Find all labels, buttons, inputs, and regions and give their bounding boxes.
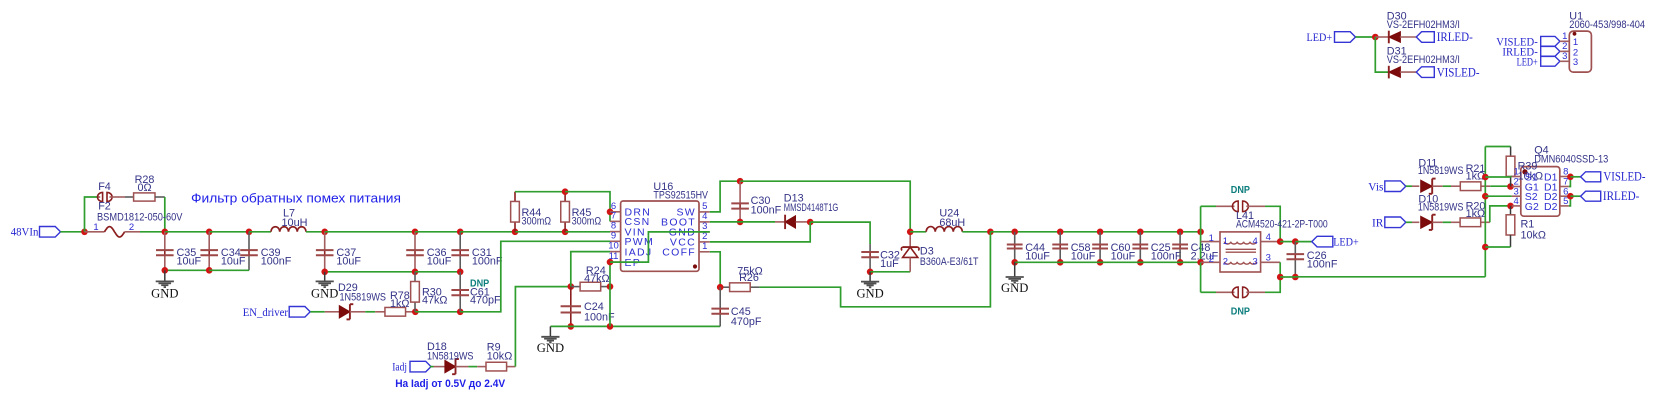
value C35 10uF xyxy=(177,255,202,267)
pin 9 PWM of U16 xyxy=(610,230,654,248)
wire D18 to R9 xyxy=(468,366,477,368)
svg-text:10uF: 10uF xyxy=(221,255,246,267)
wire SW out rail to cap bank xyxy=(990,231,1200,233)
value C45 470pF xyxy=(731,316,762,328)
svg-text:10uF: 10uF xyxy=(336,255,361,267)
junction R24 right on EP riser xyxy=(607,283,614,290)
junction at C36 xyxy=(412,229,419,236)
junction C36 bottom xyxy=(412,269,419,276)
resistor R26 75k xyxy=(720,283,759,292)
svg-text:1: 1 xyxy=(1209,233,1214,244)
svg-text:3: 3 xyxy=(1562,51,1567,62)
junction C44 bottom xyxy=(1011,259,1018,266)
capacitor C39 xyxy=(240,232,258,270)
wire EN_driver to D29 xyxy=(310,311,324,313)
hierarchical label IR xyxy=(1372,215,1406,229)
label C24 xyxy=(584,301,604,313)
svg-text:D2: D2 xyxy=(1544,201,1558,213)
svg-text:LED+: LED+ xyxy=(1517,55,1538,69)
wire C34-C39 bottom bus xyxy=(209,269,249,271)
value C37 10uF xyxy=(336,255,361,267)
wire U24 to out junction xyxy=(962,231,990,233)
svg-text:4: 4 xyxy=(1253,236,1258,247)
svg-text:1: 1 xyxy=(93,222,98,233)
junction C60 top xyxy=(1097,229,1104,236)
value R1 10k xyxy=(1521,229,1546,241)
wire IR to D10 xyxy=(1406,221,1412,223)
ground GND at C24 row xyxy=(537,326,564,355)
label C58 xyxy=(1071,242,1091,254)
wire C32 bottom to D3 anode xyxy=(870,271,910,273)
junction S2 tap xyxy=(1482,193,1489,200)
capacitor C26 xyxy=(1287,242,1305,277)
label R44 xyxy=(522,207,542,219)
wire LED+ to junction xyxy=(1356,36,1376,38)
wire S2 row xyxy=(1485,195,1512,197)
label C35 xyxy=(177,247,197,259)
svg-text:Vis: Vis xyxy=(1368,179,1383,193)
svg-text:300mΩ: 300mΩ xyxy=(522,215,552,227)
wire to VISLED label xyxy=(1570,176,1580,178)
wire bottom bus C36 to C31 xyxy=(415,271,460,273)
pin 6 D2 of Q4 xyxy=(1544,186,1569,203)
value C60 10uF xyxy=(1111,251,1136,263)
capacitor C30 xyxy=(731,181,749,222)
value TPS92515HV xyxy=(653,189,708,201)
hierarchical label EN_driver xyxy=(243,305,311,319)
resistor R20 1k xyxy=(1451,218,1490,227)
diode D31 (cathode left) xyxy=(1389,66,1417,79)
junction at C39 xyxy=(246,229,253,236)
junction at DRN pin 6 xyxy=(607,209,614,216)
svg-text:3: 3 xyxy=(1253,257,1258,268)
hierarchical label IRLED- at Q4 xyxy=(1581,189,1640,203)
svg-text:1N5819WS: 1N5819WS xyxy=(1418,165,1464,177)
value D31 VS-2EFH02HM3/I xyxy=(1387,54,1460,66)
resistor R44 300mR xyxy=(511,192,520,232)
pin 7 CSN of U16 xyxy=(610,210,651,228)
label R24 xyxy=(586,265,606,277)
pin 8 D1 of Q4 xyxy=(1544,167,1569,184)
pin 2 of U1 xyxy=(1560,41,1578,58)
svg-text:IR: IR xyxy=(1372,215,1383,229)
ground GND under C44 xyxy=(1001,262,1028,295)
junction at R44 bottom xyxy=(512,229,519,236)
label R30 xyxy=(422,286,442,298)
value U24 68uH xyxy=(939,217,965,229)
label R21 xyxy=(1466,163,1486,175)
value R45 300mR xyxy=(572,215,602,227)
svg-text:GND: GND xyxy=(856,286,883,300)
svg-text:DNP: DNP xyxy=(1231,307,1250,318)
svg-text:1N5819WS: 1N5819WS xyxy=(1418,202,1464,214)
hierarchical label VISLED- at Q4 xyxy=(1581,170,1646,184)
wire R45 top to DRN riser xyxy=(565,192,610,222)
capacitor C36 xyxy=(406,232,424,272)
svg-text:VS-2EFH02HM3/I: VS-2EFH02HM3/I xyxy=(1387,19,1460,31)
svg-text:47kΩ: 47kΩ xyxy=(422,294,447,306)
connector U1 body xyxy=(1569,31,1591,72)
value D30 VS-2EFH02HM3/I xyxy=(1387,19,1460,31)
wire rail C37 to C36 xyxy=(325,231,415,233)
pin 2 VCC of U16 xyxy=(670,231,710,249)
svg-text:GND: GND xyxy=(151,287,178,301)
diode D29 1N5819WS xyxy=(325,304,365,319)
junction G1 node xyxy=(1507,183,1514,190)
junction D13 anode xyxy=(807,219,814,226)
svg-text:G2: G2 xyxy=(1525,201,1539,213)
label R45 xyxy=(572,207,592,219)
label U1 xyxy=(1569,10,1583,22)
junction at R45 bottom xyxy=(562,229,569,236)
junction L41 pin2 node xyxy=(1197,259,1204,266)
svg-text:10uF: 10uF xyxy=(177,255,202,267)
svg-text:GND: GND xyxy=(537,341,564,355)
svg-text:100nF: 100nF xyxy=(261,255,292,267)
wire bottom riser to Q4 node xyxy=(1484,247,1486,277)
svg-text:DNP: DNP xyxy=(1231,185,1250,196)
wire rail C39 to L7 xyxy=(249,231,271,233)
hierarchical label LED+ out xyxy=(1312,235,1359,249)
svg-text:68uH: 68uH xyxy=(939,217,965,229)
wire rail C34 to C39 xyxy=(209,231,249,233)
value 0R xyxy=(137,182,151,194)
junction C26 top xyxy=(1292,238,1299,245)
junction R45 top xyxy=(562,188,569,195)
annotation Iadj range xyxy=(395,378,506,390)
label DNP bottom xyxy=(1231,307,1250,318)
junction at C31 xyxy=(457,229,464,236)
hierarchical label 48VIn xyxy=(11,225,61,239)
wire bottom bus C37 to C36 xyxy=(325,271,415,273)
inductor U24 68uH xyxy=(926,227,962,232)
capacitor C45 xyxy=(711,287,729,326)
wire left riser to lower fuse xyxy=(1200,262,1202,292)
fuse F4 (bypass) xyxy=(97,192,125,201)
junction L41 pin4 node xyxy=(1277,238,1284,245)
ground GND under C35 xyxy=(151,270,178,300)
junction C58 bottom xyxy=(1057,259,1064,266)
ground GND under C32 xyxy=(856,272,883,301)
pin 2 G1 of Q4 xyxy=(1512,177,1539,194)
label C61 xyxy=(470,286,490,298)
pin 5 SW of U16 xyxy=(676,201,709,219)
value L41 ACM4520 xyxy=(1236,218,1328,230)
pin 6 DRN of U16 xyxy=(610,201,651,219)
junction at EP pin 11 xyxy=(607,259,614,266)
svg-text:F4: F4 xyxy=(98,181,111,193)
label C48 xyxy=(1191,242,1211,254)
diode D3 B360A (vertical schottky) xyxy=(901,232,919,272)
junction rail at L41 riser xyxy=(1197,229,1204,236)
wire EN row to PWM riser xyxy=(460,241,610,311)
wire D29 to R78 xyxy=(365,311,375,313)
svg-text:2: 2 xyxy=(1209,254,1214,265)
pin 2 of F2 xyxy=(129,222,134,233)
svg-text:2060-453/998-404: 2060-453/998-404 xyxy=(1569,19,1645,31)
label R1 xyxy=(1521,219,1535,231)
svg-text:GND: GND xyxy=(311,286,338,300)
svg-text:Фильтр обратных помех питания: Фильтр обратных помех питания xyxy=(191,191,401,206)
wire top to R39 xyxy=(1485,146,1510,148)
pin 11 EP of U16 xyxy=(609,251,642,269)
label DNP C61 xyxy=(470,278,489,289)
label U16 xyxy=(653,181,673,193)
junction C60 bottom xyxy=(1097,259,1104,266)
svg-text:VISLED-: VISLED- xyxy=(1437,65,1480,79)
junction at F2 input xyxy=(81,229,88,236)
svg-text:3: 3 xyxy=(1266,253,1271,264)
svg-text:B360A-E3/61T: B360A-E3/61T xyxy=(920,256,979,268)
wire EN row R78 to C61 xyxy=(415,311,460,313)
svg-text:LED+: LED+ xyxy=(1333,235,1359,249)
junction at C37 xyxy=(321,229,328,236)
diode D11 1N5819WS xyxy=(1412,179,1443,194)
pin 3 of U1 xyxy=(1560,51,1578,68)
transistor Q4 DMN6040SSD body xyxy=(1521,167,1560,217)
svg-text:48VIn: 48VIn xyxy=(11,225,39,239)
junction LED+ node xyxy=(1372,34,1379,41)
value C61 470pF xyxy=(470,295,501,307)
svg-text:1N5819WS: 1N5819WS xyxy=(427,350,474,362)
label DNP top xyxy=(1231,185,1250,196)
svg-text:DMN6040SSD-13: DMN6040SSD-13 xyxy=(1534,154,1608,166)
svg-text:Iadj: Iadj xyxy=(392,360,407,374)
capacitor C61 DNP xyxy=(451,272,469,312)
value D18 1N5819WS xyxy=(427,350,474,362)
hierarchical label Vis xyxy=(1368,179,1406,193)
pin 1 of F2 xyxy=(93,222,98,233)
label D29 xyxy=(338,282,358,294)
capacitor C60 xyxy=(1092,232,1108,262)
value Q4 DMN6040SSD-13 xyxy=(1534,154,1608,166)
svg-text:11: 11 xyxy=(609,251,619,262)
label C39 xyxy=(261,247,281,259)
wire rail C36 to C31 xyxy=(415,231,460,233)
junction at C34 xyxy=(206,229,213,236)
svg-text:VS-2EFH02HM3/I: VS-2EFH02HM3/I xyxy=(1387,54,1460,66)
value BSMD1812-050-60V xyxy=(97,212,183,224)
wire GND pin through box to EP xyxy=(610,232,710,262)
resistor R21 1k xyxy=(1451,182,1490,191)
junction C48 bottom xyxy=(1177,259,1184,266)
wire rail C35 to C34 xyxy=(165,231,209,233)
value C31 100nF xyxy=(472,255,503,267)
junction C44 top xyxy=(1011,229,1018,236)
svg-text:COFF: COFF xyxy=(662,247,696,259)
wire D11 to R21 xyxy=(1443,185,1451,187)
wire D1 pins tie xyxy=(1569,177,1571,187)
diode D18 1N5819WS xyxy=(445,359,469,374)
wire bottom row to Q4 section xyxy=(1280,276,1485,278)
hierarchical label LED+ top xyxy=(1307,30,1356,44)
junction C34 bottom xyxy=(206,267,213,274)
svg-text:ACM4520-421-2P-T000: ACM4520-421-2P-T000 xyxy=(1236,218,1328,230)
label C25 xyxy=(1151,242,1171,254)
svg-text:1kΩ: 1kΩ xyxy=(1466,208,1485,220)
value R26 75k xyxy=(737,265,762,277)
svg-text:1kΩ: 1kΩ xyxy=(390,298,409,310)
svg-text:VISLED-: VISLED- xyxy=(1603,170,1645,184)
wire GND row xyxy=(551,325,721,327)
svg-text:47kΩ: 47kΩ xyxy=(584,273,609,285)
wire R28 down to rail xyxy=(164,197,166,232)
value C32 1uF xyxy=(880,258,899,270)
wire D2 pins tie xyxy=(1569,196,1571,206)
capacitor C35 xyxy=(156,232,174,270)
wire cap bank bottom bus xyxy=(1015,261,1201,263)
junction G2 node xyxy=(1507,203,1514,210)
svg-text:10: 10 xyxy=(608,241,619,252)
value D10 1N5819WS xyxy=(1418,202,1464,214)
junction at C35 xyxy=(162,229,169,236)
pin 1 S1 of Q4 xyxy=(1512,167,1538,184)
value D13 MMSD4148T1G xyxy=(784,202,839,214)
wire VCC to D13 node xyxy=(710,222,810,242)
resistor R30 47k xyxy=(411,272,420,312)
junction R78 out xyxy=(412,309,419,316)
value R44 300mR xyxy=(522,215,552,227)
label C36 xyxy=(427,247,447,259)
value C26 100nF xyxy=(1307,258,1338,270)
junction C32 bottom xyxy=(867,269,874,276)
label D13 xyxy=(784,193,804,205)
hierarchical label VISLED- top xyxy=(1416,65,1479,79)
value R21 1k xyxy=(1466,171,1485,183)
pin 8 VIN of U16 xyxy=(610,221,646,239)
svg-text:MMSD4148T1G: MMSD4148T1G xyxy=(784,202,839,214)
svg-text:100nF: 100nF xyxy=(751,204,782,216)
pin 2 of L41 xyxy=(1201,254,1228,268)
fuse DNP top bypass xyxy=(1201,201,1281,242)
svg-text:10kΩ: 10kΩ xyxy=(487,351,512,363)
junction IRLED node xyxy=(1567,193,1574,200)
label Q4 xyxy=(1534,145,1548,157)
junction S1 tap xyxy=(1482,174,1489,181)
svg-text:GND: GND xyxy=(1001,281,1028,295)
resistor R39 10k xyxy=(1506,147,1515,187)
capacitor C32 xyxy=(861,244,879,272)
label D3 xyxy=(920,245,934,257)
svg-text:1uF: 1uF xyxy=(880,258,899,270)
wire D10 to R20 xyxy=(1443,221,1451,223)
IC U16 TPS92515HV body xyxy=(621,201,699,271)
wire 48VIn to junction xyxy=(60,231,84,233)
label L41 xyxy=(1236,210,1254,222)
wire SW node to U24 xyxy=(910,231,926,233)
value R30 47k xyxy=(422,294,447,306)
wire SW to top rail xyxy=(710,181,740,212)
junction C35 bottom xyxy=(162,267,169,274)
svg-text:1: 1 xyxy=(702,241,707,252)
wire rail L7 to C37 xyxy=(306,231,325,233)
resistor R9 10k xyxy=(477,362,515,371)
value C36 10uF xyxy=(427,255,452,267)
resistor R1 10k xyxy=(1506,206,1515,247)
hierarchical label Iadj xyxy=(392,360,431,374)
label D10 xyxy=(1418,194,1438,206)
value C25 100nF xyxy=(1151,251,1182,263)
svg-text:2.2uF: 2.2uF xyxy=(1191,251,1219,263)
wire EP riser xyxy=(609,262,611,326)
junction R24 left xyxy=(568,283,575,290)
pin 4 BOOT of U16 xyxy=(661,211,710,229)
wire rail C31 to R44 xyxy=(460,231,515,233)
value C30 100nF xyxy=(751,204,782,216)
value C24 100nF xyxy=(584,312,615,324)
junction C25 bottom xyxy=(1137,259,1144,266)
label C34 xyxy=(221,247,241,259)
svg-text:4: 4 xyxy=(1266,232,1271,243)
value L7 10uH xyxy=(282,217,308,229)
junction COFF node xyxy=(717,284,724,291)
fuse DNP bottom bypass xyxy=(1201,277,1281,298)
resistor R45 300mR xyxy=(561,192,570,232)
capacitor C31 xyxy=(451,232,469,272)
label D11 xyxy=(1418,158,1437,170)
value C39 100nF xyxy=(261,255,292,267)
label C44 xyxy=(1025,242,1045,254)
capacitor C37 xyxy=(316,232,334,272)
wire rail R45 to VIN pin xyxy=(565,231,610,233)
wire rail F2 to C35 xyxy=(140,231,165,233)
value C34 10uF xyxy=(221,255,246,267)
value R78 1k xyxy=(390,298,409,310)
label F2 xyxy=(98,201,111,213)
label R28 xyxy=(135,174,155,186)
svg-text:0Ω: 0Ω xyxy=(137,182,151,194)
wire R20 up to G2 xyxy=(1490,206,1511,222)
svg-text:3: 3 xyxy=(1573,57,1578,68)
label C45 xyxy=(731,306,751,318)
svg-text:2: 2 xyxy=(129,222,134,233)
label F4 xyxy=(98,181,111,193)
fuse F2 BSMD1812 inline xyxy=(85,227,141,237)
label C26 xyxy=(1307,250,1327,262)
pin 4 of L41 xyxy=(1253,232,1281,247)
value R20 1k xyxy=(1466,208,1485,220)
wire riser to F4 bypass xyxy=(85,197,98,232)
svg-text:TPS92515HV: TPS92515HV xyxy=(653,189,708,201)
junction C24 bottom xyxy=(568,323,575,330)
junction C31-C61 node xyxy=(457,269,464,276)
wire C26 to LED+ label xyxy=(1295,241,1312,243)
choke L41 winding top xyxy=(1224,242,1256,253)
wire C35-C34 bottom bus xyxy=(165,269,209,271)
wire IADJ pin to riser xyxy=(571,252,610,287)
label U24 xyxy=(939,207,959,219)
wire Iadj to D18 xyxy=(430,366,445,368)
hierarchical label VISLED- at U1 xyxy=(1496,35,1560,49)
junction pin3 bottom row xyxy=(1277,274,1284,281)
pin 1 of U1 xyxy=(1560,31,1578,48)
value D11 1N5819WS xyxy=(1418,165,1464,177)
diode D13 MMSD4148 (cathode left) xyxy=(775,215,810,229)
wire D13 node to C32 xyxy=(810,222,870,244)
label L7 xyxy=(283,207,295,219)
value D3 B360A-E3/61T xyxy=(920,256,979,268)
junction SW node xyxy=(907,229,914,236)
wire BOOT to D13 xyxy=(710,221,775,223)
wire pin4 to C26 xyxy=(1280,241,1295,243)
pin 7 D1 of Q4 xyxy=(1544,177,1569,194)
label C60 xyxy=(1111,242,1131,254)
capacitor C34 xyxy=(200,232,218,270)
svg-text:10uH: 10uH xyxy=(282,217,308,229)
wire pin3 riser xyxy=(1279,262,1281,277)
resistor R28 0R bypass xyxy=(125,193,165,201)
svg-text:1: 1 xyxy=(1223,236,1228,247)
